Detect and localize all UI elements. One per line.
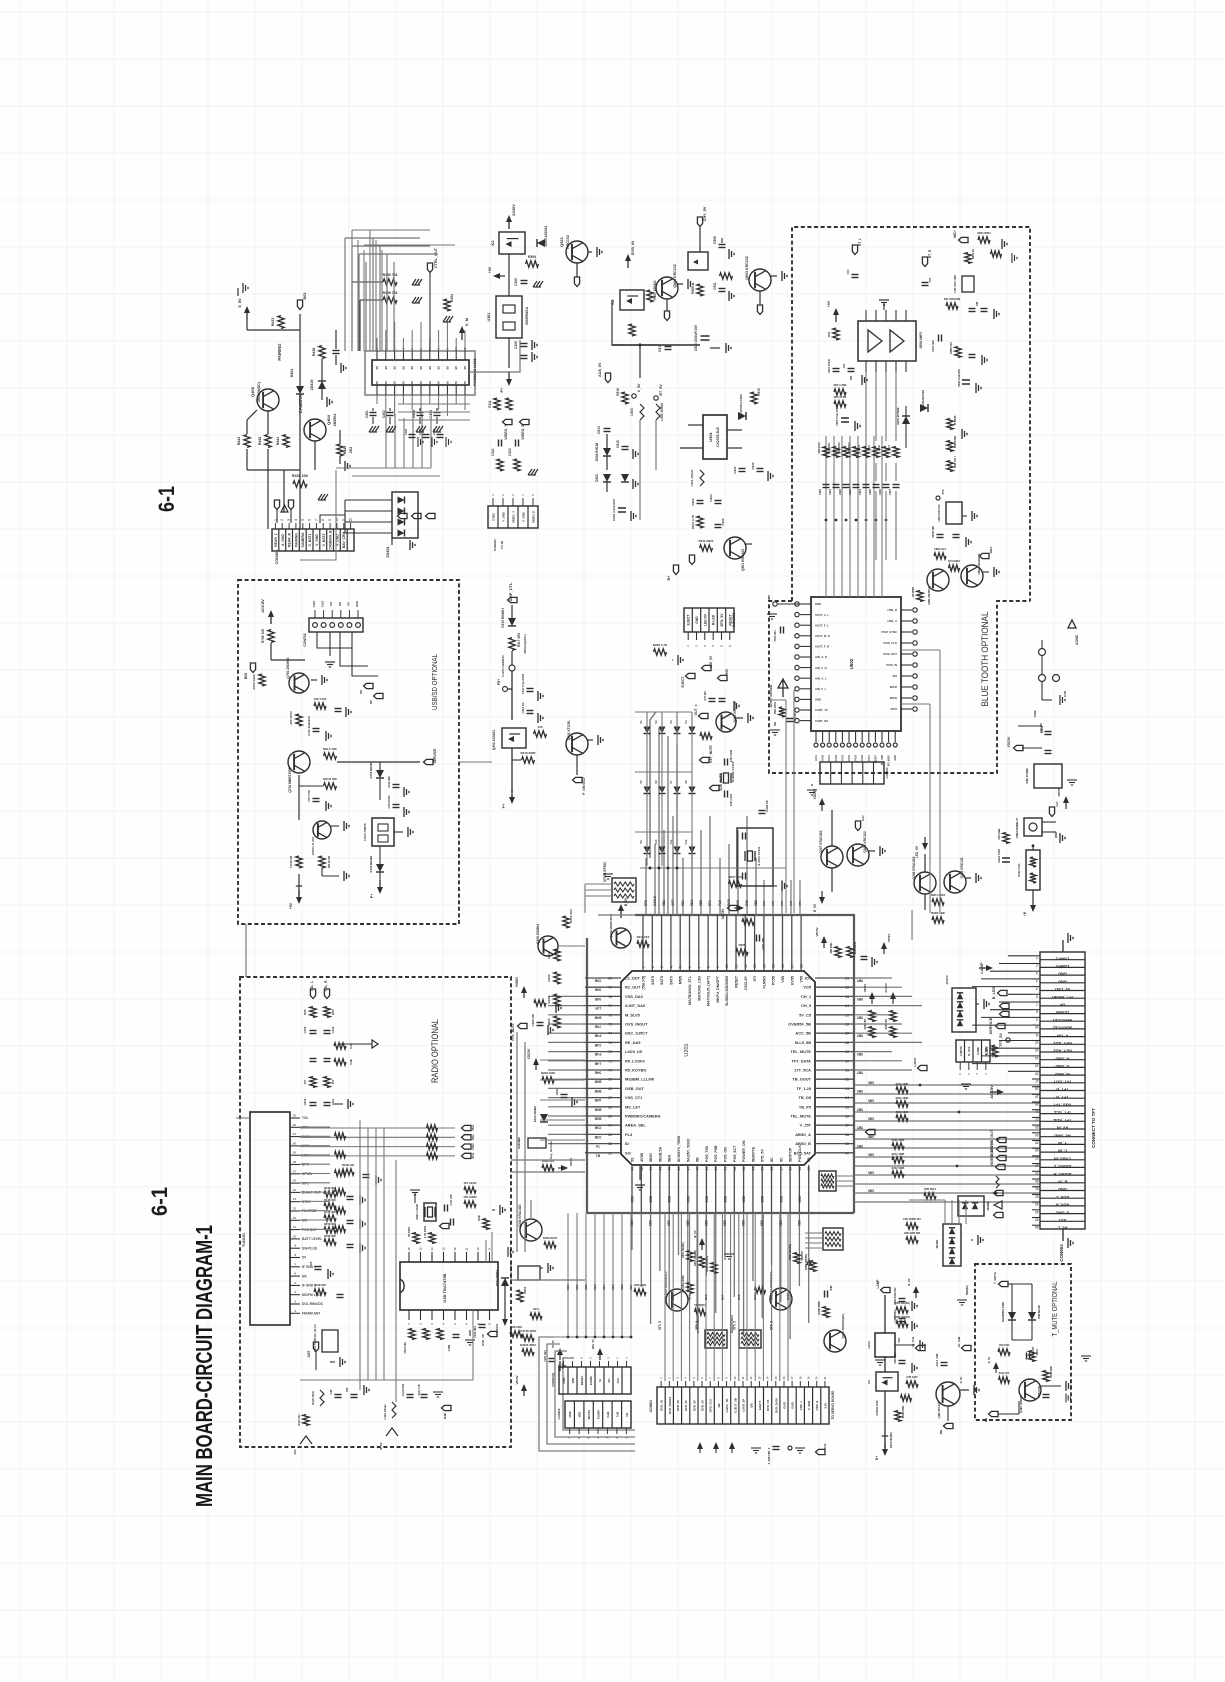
- svg-text:5V: 5V: [463, 381, 467, 384]
- svg-text:C822: C822: [839, 488, 842, 494]
- svg-text:C453: C453: [412, 410, 416, 418]
- svg-text:FwB: FwB: [606, 1412, 610, 1418]
- svg-text:9: 9: [716, 966, 720, 968]
- resistor R704 mid: [296, 714, 302, 726]
- tuner mini resistors: [335, 1133, 346, 1139]
- svg-text:B_5V: B_5V: [987, 1356, 991, 1363]
- svg-text:A_5HB CBP_A: A_5HB CBP_A: [768, 1447, 771, 1464]
- wire pair1: [831, 868, 833, 892]
- saw filter BP202: [739, 1330, 761, 1348]
- svg-text:5AT5: 5AT5: [660, 976, 664, 985]
- CON401 pin numbers: [274, 523, 276, 529]
- camera extra caps row: [409, 434, 416, 436]
- pill VDD3V low: [1014, 745, 1024, 750]
- svg-text:18: 18: [1035, 1087, 1039, 1091]
- node BT_5V circle: [654, 396, 658, 400]
- gnd pair1: [879, 846, 881, 856]
- cap Y44 C207b: [1026, 1353, 1028, 1360]
- svg-text:P+: P+: [499, 387, 504, 393]
- svg-text:S8: S8: [684, 780, 688, 784]
- trunk between CON401 area and FAN8082: [398, 403, 470, 405]
- svg-text:C8B4 24.5: C8B4 24.5: [934, 548, 947, 551]
- svg-text:5B5: 5B5: [857, 1107, 863, 1111]
- svg-text:PCM_OUT: PCM_OUT: [883, 652, 897, 656]
- svg-text:PIO2: PIO2: [835, 754, 838, 760]
- arrow B_5V pair1: [821, 891, 823, 900]
- resistor R216: [637, 941, 649, 947]
- pill VIDEO_C: [997, 1155, 1007, 1160]
- svg-text:5A2/5Y_5O20: 5A2/5Y_5O20: [686, 1139, 690, 1162]
- svg-text:KRC102: KRC102: [566, 235, 570, 249]
- svg-text:K3V: K3V: [823, 1443, 827, 1448]
- bus trunk left of main IC: [586, 938, 588, 1213]
- IC U401 FAN8082: [372, 360, 469, 385]
- bulk wires U401 right: [469, 340, 520, 372]
- svg-text:S4: S4: [684, 720, 688, 724]
- svg-text:5V: 5V: [384, 381, 388, 384]
- ANT input circuit: [313, 1342, 318, 1352]
- svg-text:Q904 KRC102: Q904 KRC102: [673, 264, 677, 288]
- bus wires left of main IC: [548, 995, 585, 997]
- svg-text:R433: R433: [271, 318, 275, 327]
- node P8+: [503, 687, 508, 692]
- svg-text:GND: GND: [1058, 972, 1067, 977]
- svg-text:BT_L: BT_L: [858, 238, 862, 246]
- svg-text:30K45 36K: 30K45 36K: [323, 777, 337, 781]
- svg-text:R816: R816: [878, 444, 881, 450]
- res chain right3: [947, 461, 953, 472]
- svg-text:L901 100uH: L901 100uH: [690, 470, 694, 487]
- svg-text:OVER5F_5B: OVER5F_5B: [788, 1022, 811, 1027]
- wire radio to center: [511, 1279, 585, 1281]
- svg-text:BYB4B D5B2: BYB4B D5B2: [921, 389, 925, 406]
- svg-text:AUX_R: AUX_R: [1056, 1203, 1070, 1208]
- svg-text:15: 15: [772, 964, 776, 968]
- svg-text:CVBS_IN: CVBS_IN: [1054, 1156, 1071, 1161]
- svg-text:12: 12: [293, 1216, 297, 1220]
- pill CVBS_OUT: [997, 1137, 1007, 1142]
- svg-text:5T1: 5T1: [708, 900, 712, 906]
- transistor Q702 big: [288, 751, 310, 773]
- svg-text:14: 14: [762, 964, 766, 968]
- svg-text:LAMP: LAMP: [876, 1279, 880, 1289]
- BT bus caps row: [823, 484, 830, 486]
- svg-text:TFT_RESET: TFT_RESET: [1050, 995, 1073, 1000]
- svg-text:M_SLV5: M_SLV5: [625, 1012, 641, 1017]
- arrow V66BV: [523, 990, 525, 998]
- diode BH148b: [621, 474, 629, 482]
- svg-text:VGS_TFT: VGS_TFT: [1053, 1103, 1072, 1108]
- svg-text:Q203 KRC102: Q203 KRC102: [960, 857, 964, 878]
- svg-text:R05: R05: [725, 669, 729, 675]
- svg-text:ID: ID: [625, 1141, 629, 1146]
- svg-text:UART6: UART6: [959, 1046, 963, 1056]
- pill G17 ir: [1049, 807, 1054, 817]
- svg-text:C318 1D: C318 1D: [521, 702, 525, 713]
- svg-text:R507 33E(BC): R507 33E(BC): [682, 1242, 685, 1258]
- svg-text:TFT_DATA: TFT_DATA: [791, 1058, 811, 1063]
- transistor Q803: [961, 565, 983, 587]
- res R841 left low: [779, 707, 785, 717]
- arrow B_5V q211: [915, 1290, 917, 1298]
- svg-text:L2_OUT: L2_OUT: [625, 976, 641, 981]
- wires radio box to IC left: [516, 1032, 518, 1252]
- svg-text:TEL_MUTE: TEL_MUTE: [790, 1049, 811, 1054]
- svg-text:C916 3.3uF/16V: C916 3.3uF/16V: [612, 499, 616, 521]
- svg-text:5LL5_5B: 5LL5_5B: [795, 1040, 811, 1045]
- resistor R208: [654, 649, 667, 655]
- arrow VDD3V near XF201B: [808, 1262, 810, 1270]
- mosfet Q216: [876, 1372, 898, 1391]
- op-amp B triangle: [890, 330, 904, 352]
- res column R254 R255: [890, 1011, 896, 1022]
- arrow 5V b: [559, 1352, 561, 1360]
- triangle A_GND: [281, 505, 288, 512]
- transistor Q213: [666, 1289, 688, 1311]
- svg-text:AUX_IN: AUX_IN: [598, 363, 602, 377]
- CON402 pins: [492, 498, 494, 506]
- caps C158 C159 bottom pair: [310, 1102, 317, 1104]
- op-amp A triangle: [868, 330, 882, 352]
- svg-text:12P C208: 12P C208: [729, 749, 733, 762]
- svg-text:CAMERA: CAMERA: [301, 532, 305, 547]
- svg-text:POWER_ON: POWER_ON: [742, 1140, 746, 1162]
- svg-text:14: 14: [293, 1197, 297, 1201]
- svg-text:U803 WFY310: U803 WFY310: [937, 504, 941, 522]
- svg-text:6: 6: [688, 966, 692, 968]
- svg-text:VDD: VDD: [578, 1412, 582, 1418]
- BT mid pill 3V3: [936, 496, 940, 500]
- arrow B_5V tmute: [995, 1366, 997, 1373]
- svg-text:68: 68: [608, 1087, 612, 1091]
- svg-text:24B R812: 24B R812: [838, 442, 841, 454]
- svg-text:R43B B4B: R43B B4B: [1050, 1366, 1053, 1378]
- svg-text:V_GND: V_GND: [522, 512, 526, 522]
- svg-text:B4B R29B: B4B R29B: [954, 436, 957, 448]
- svg-text:FLM80: FLM80: [597, 1410, 601, 1419]
- svg-text:B4B C817: B4B C817: [954, 456, 957, 468]
- svg-text:R5Z3 2B1(BC): R5Z3 2B1(BC): [890, 1432, 893, 1448]
- svg-text:35: 35: [1035, 1218, 1039, 1222]
- svg-text:B59: B59: [737, 1294, 741, 1300]
- BT module U802: [811, 597, 901, 731]
- connector CON801 servo: [657, 1387, 829, 1424]
- svg-text:BLUE TOOTH OPTIONAL: BLUE TOOTH OPTIONAL: [980, 612, 991, 707]
- svg-text:Key_Remote: Key_Remote: [549, 1141, 553, 1160]
- svg-text:CHY_5V: CHY_5V: [703, 206, 707, 221]
- svg-text:PAIRING: PAIRING: [277, 343, 282, 360]
- svg-text:10K C703: 10K C703: [314, 697, 327, 701]
- svg-text:5T5: 5T5: [644, 900, 648, 906]
- svg-text:B5: B5: [445, 365, 449, 369]
- svg-text:R438: R438: [312, 348, 316, 357]
- svg-text:CD_CHA: CD_CHA: [911, 1336, 915, 1347]
- svg-text:33B1(BC) R5B3: 33B1(BC) R5B3: [682, 1275, 685, 1293]
- svg-text:5B: 5B: [696, 1157, 700, 1162]
- resistor R232 diag: [544, 1242, 556, 1248]
- horizontal trunk y868: [640, 867, 786, 869]
- svg-text:5TI: 5TI: [753, 976, 757, 981]
- IC U101 TBA7479B: [400, 1262, 498, 1310]
- cap C221 pair2: [561, 1094, 568, 1096]
- svg-text:ZD203: ZD203: [945, 975, 949, 984]
- svg-text:R2B5 1BB: R2B5 1BB: [931, 911, 945, 915]
- pill SERVICE: [996, 1023, 1006, 1028]
- svg-text:69: 69: [608, 1078, 612, 1082]
- gnd right of Q901: [746, 543, 752, 545]
- svg-text:REAR_L: REAR_L: [274, 533, 278, 547]
- crystal X202: [724, 773, 729, 783]
- cap C305 + gnd pair1: [521, 280, 528, 282]
- diode D210: [540, 1114, 548, 1122]
- svg-text:64: 64: [608, 1124, 612, 1128]
- transistor Q405: [257, 389, 279, 411]
- svg-text:VIDEO_E: VIDEO_E: [521, 424, 525, 440]
- svg-text:13: 13: [753, 964, 757, 968]
- arrow B_5V near Q20B: [620, 908, 622, 918]
- svg-text:AV_L: AV_L: [1057, 1226, 1067, 1231]
- svg-text:C305: C305: [514, 278, 518, 286]
- radio lower caps: [315, 1266, 322, 1268]
- svg-text:5B5: 5B5: [686, 1220, 690, 1226]
- svg-text:R441: R441: [276, 437, 280, 446]
- svg-text:VIDEO_E: VIDEO_E: [532, 511, 536, 523]
- svg-text:B5B: B5B: [724, 1195, 728, 1202]
- diode D703 low: [376, 864, 384, 872]
- svg-text:VIDEO_Y: VIDEO_Y: [504, 424, 508, 440]
- svg-text:C8H: C8H: [471, 1144, 475, 1150]
- svg-text:MBA: MBA: [989, 546, 993, 554]
- svg-text:GND: GND: [1058, 979, 1067, 984]
- svg-text:AIN_A_R: AIN_A_R: [815, 655, 827, 659]
- svg-text:41: 41: [631, 1167, 635, 1171]
- svg-text:5B5: 5B5: [857, 1089, 863, 1093]
- svg-text:R252 457: R252 457: [864, 1018, 867, 1029]
- resistor R226 h: [534, 1000, 546, 1006]
- U901 pin wires: [688, 424, 703, 426]
- svg-text:710 R708: 710 R708: [289, 855, 293, 868]
- wire pair2 up: [924, 854, 926, 872]
- vertical wires IC to CON903: [567, 1213, 569, 1337]
- svg-text:C220 10K: C220 10K: [531, 1014, 535, 1027]
- bus BT to IC right vertical: [901, 649, 940, 651]
- svg-text:B513: B513: [770, 1292, 774, 1300]
- svg-text:52H: 52H: [471, 1135, 475, 1141]
- gnd lamp Q215: [973, 1385, 975, 1395]
- svg-text:32: 32: [845, 1078, 849, 1082]
- svg-text:V800V: V800V: [569, 1158, 573, 1167]
- svg-text:UP: UP: [1059, 1003, 1065, 1008]
- coil L903: [640, 404, 644, 420]
- svg-text:Q211 2N3904(BC): Q211 2N3904(BC): [841, 1314, 845, 1339]
- svg-text:Q207 KRA102S: Q207 KRA102S: [819, 830, 823, 853]
- cap pair lamp c: [899, 1360, 906, 1362]
- svg-text:D801 BYN4B: D801 BYN4B: [896, 408, 900, 425]
- svg-text:5B5: 5B5: [868, 1099, 874, 1103]
- arrow ACC5V mid: [990, 1091, 1000, 1093]
- resistor R311 R312 pair: [494, 398, 500, 410]
- svg-text:L4O5_U5: L4O5_U5: [625, 1049, 643, 1054]
- svg-text:ZD401: ZD401: [386, 546, 390, 557]
- radio mid resistor rows: [324, 1191, 336, 1197]
- svg-text:5: 5: [301, 519, 305, 521]
- svg-text:34: 34: [1035, 1210, 1039, 1214]
- svg-text:TB_OOUT: TB_OOUT: [792, 1077, 811, 1082]
- svg-text:USB_B: USB_B: [888, 608, 897, 612]
- svg-text:21: 21: [1035, 1110, 1039, 1114]
- res R331 vert ir: [1003, 833, 1009, 844]
- svg-text:DVD_CD: DVD_CD: [481, 1334, 485, 1346]
- svg-text:Y_IN: Y_IN: [1058, 1141, 1067, 1146]
- svg-text:GND: GND: [562, 1377, 566, 1383]
- transistor Q404: [304, 419, 326, 441]
- svg-text:34: 34: [845, 1096, 849, 1100]
- svg-text:ANT807 ANT1DNA: ANT807 ANT1DNA: [769, 685, 773, 708]
- svg-text:R214 2K2: R214 2K2: [569, 909, 573, 923]
- caps C921 C922 right pair: [739, 468, 746, 470]
- svg-text:C922: C922: [751, 462, 755, 470]
- svg-text:IO5: IO5: [805, 976, 812, 981]
- resistor R213: [700, 733, 712, 739]
- node circle ir: [1032, 845, 1035, 848]
- svg-text:C64 A_5HB: C64 A_5HB: [936, 1353, 939, 1366]
- svg-text:A5UT_M_R: A5UT_M_R: [815, 634, 830, 638]
- svg-text:R214: R214: [533, 1308, 539, 1311]
- cap C207 pair: [709, 698, 716, 700]
- bus trunk bottom of main IC: [587, 1212, 854, 1214]
- svg-text:R317 2R2: R317 2R2: [517, 633, 521, 648]
- svg-text:R-LED: R-LED: [712, 614, 716, 625]
- svg-text:5B5: 5B5: [667, 1220, 671, 1226]
- svg-text:9: 9: [1036, 1017, 1038, 1021]
- svg-text:DO1 RW/UDC: DO1 RW/UDC: [302, 1302, 324, 1306]
- gnd U804: [1067, 779, 1077, 781]
- svg-text:LAMP1: LAMP1: [1055, 956, 1069, 961]
- wire lamp rail: [884, 1295, 886, 1333]
- bus trunk top and right of main IC: [635, 915, 854, 1213]
- svg-text:6-1: 6-1: [154, 486, 179, 512]
- radio bottom res: [303, 1415, 309, 1426]
- svg-text:R5B R244: R5B R244: [924, 1188, 936, 1191]
- svg-text:70: 70: [608, 1069, 612, 1073]
- svg-text:100uF P300: 100uF P300: [998, 849, 1001, 863]
- pill VIDEO_Y: [997, 1146, 1007, 1151]
- svg-text:B51: B51: [671, 1294, 675, 1300]
- resistor R438: [319, 346, 325, 359]
- svg-text:M_GND: M_GND: [1055, 1072, 1070, 1077]
- svg-text:GND: GND: [894, 755, 897, 761]
- svg-text:KEY_MUTE: KEY_MUTE: [709, 745, 713, 762]
- svg-text:D703 BH4B1: D703 BH4B1: [369, 855, 373, 872]
- svg-text:R204 A222: R204 A222: [931, 893, 945, 897]
- svg-text:CON402: CON402: [493, 539, 497, 551]
- res net mid radio: [342, 1169, 354, 1175]
- CON801 pin numbers: [660, 1381, 662, 1387]
- svg-text:B03: B03: [303, 293, 307, 300]
- svg-text:10: 10: [454, 347, 458, 351]
- caps C153 C154 pair: [310, 1030, 317, 1032]
- svg-text:C801 100uF: C801 100uF: [827, 358, 831, 373]
- connector CON208: [684, 608, 734, 632]
- svg-text:C81B 10uF/25V: C81B 10uF/25V: [958, 369, 961, 387]
- svg-text:GND: GND: [815, 698, 821, 702]
- gnd Q210: [747, 713, 749, 723]
- arrow 5_5V top left: [246, 310, 248, 320]
- svg-text:R5B5 1K5: R5B5 1K5: [950, 342, 953, 354]
- svg-text:C925: C925: [721, 518, 725, 526]
- svg-text:RADIO OPTIONAL: RADIO OPTIONAL: [430, 1019, 440, 1083]
- svg-text:C454: C454: [429, 410, 433, 418]
- svg-text:ZD3B1: ZD3B1: [935, 1239, 939, 1248]
- svg-text:14B C5B4: 14B C5B4: [894, 1352, 897, 1364]
- svg-text:R208 4.7K: R208 4.7K: [653, 643, 668, 647]
- svg-text:S3: S3: [669, 720, 673, 724]
- svg-text:A_5HB: A_5HB: [807, 1401, 811, 1410]
- svg-text:SERVICE: SERVICE: [433, 748, 437, 764]
- resistor R151 R152: [310, 1007, 316, 1018]
- svg-text:11: 11: [465, 1247, 469, 1250]
- ground XF924: [603, 873, 613, 875]
- ground at CON904 bottom: [1062, 1229, 1064, 1241]
- svg-text:CTRL_OUT: CTRL_OUT: [434, 247, 438, 268]
- svg-text:5B3: 5B3: [593, 1284, 597, 1290]
- xtal Y201 small: [824, 1291, 826, 1298]
- svg-text:5AT5: 5AT5: [651, 976, 655, 985]
- bus junction dots top: [649, 867, 652, 870]
- diode D905 right: [738, 412, 746, 420]
- svg-text:5B2: 5B2: [662, 900, 666, 906]
- gnd mid bottom: [875, 1359, 885, 1361]
- svg-text:11: 11: [463, 347, 467, 351]
- svg-text:5B5: 5B5: [868, 1189, 874, 1193]
- svg-text:R224: R224: [547, 1018, 551, 1026]
- cap circle C18 c: [1039, 675, 1046, 682]
- svg-text:SERVICE2: SERVICE2: [1052, 1026, 1072, 1031]
- svg-text:AIN_F_R: AIN_F_R: [815, 666, 827, 670]
- U301 inner pads: [503, 305, 515, 313]
- resistor R317 vert: [509, 638, 515, 651]
- svg-text:5.5V: 5.5V: [823, 1402, 827, 1408]
- svg-text:D404: D404: [290, 369, 294, 378]
- svg-text:12P C210: 12P C210: [729, 793, 733, 806]
- svg-text:R4523 3R5Z: R4523 3R5Z: [520, 1343, 536, 1347]
- svg-text:62: 62: [608, 1142, 612, 1146]
- svg-text:1: 1: [642, 966, 646, 968]
- diode array ZD203: [952, 988, 976, 1032]
- svg-text:C16B: C16B: [447, 1345, 451, 1352]
- svg-text:PIO1: PIO1: [828, 754, 831, 760]
- svg-text:R5B A2212: R5B A2212: [854, 941, 857, 954]
- svg-text:R230 100B: R230 100B: [896, 1083, 909, 1086]
- svg-text:5_5V: 5_5V: [237, 298, 242, 308]
- svg-text:44: 44: [658, 1167, 662, 1171]
- gnd x207: [957, 1299, 967, 1301]
- gnd far right bottom: [1081, 1355, 1091, 1357]
- radio vertical bundle: [359, 1128, 361, 1380]
- svg-text:5C: 5C: [770, 1157, 774, 1162]
- arrow V800V bot: [523, 1388, 525, 1396]
- resistor R436 row: [293, 481, 307, 487]
- wire Q405 leads: [267, 411, 269, 434]
- svg-text:OSB_OUT: OSB_OUT: [625, 1086, 644, 1091]
- svg-text:B5: B5: [384, 365, 388, 369]
- wire from IC left to Q209: [558, 945, 585, 947]
- wire LED chain to IC: [911, 910, 913, 940]
- svg-text:B4B: B4B: [443, 1413, 447, 1419]
- gnd under CON801: [751, 1447, 761, 1449]
- svg-text:KEY_AD2: KEY_AD2: [1053, 1049, 1072, 1054]
- svg-text:Y_GND: Y_GND: [502, 512, 506, 522]
